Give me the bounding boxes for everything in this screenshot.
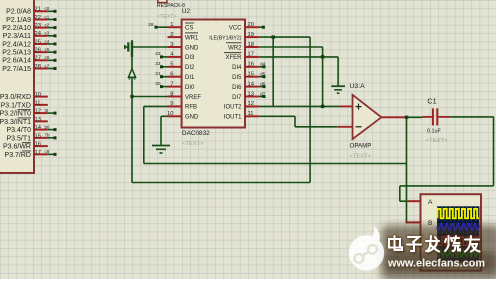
svg-text:14: 14 bbox=[248, 81, 255, 87]
svg-text:11: 11 bbox=[35, 100, 41, 106]
svg-text:c5: c5 bbox=[45, 47, 50, 52]
svg-text:IOUT2: IOUT2 bbox=[224, 105, 242, 111]
svg-text:DAC0832: DAC0832 bbox=[182, 130, 210, 137]
svg-text:10: 10 bbox=[35, 92, 41, 98]
svg-text:b6: b6 bbox=[45, 124, 50, 129]
svg-text:22: 22 bbox=[35, 15, 41, 21]
svg-text:1: 1 bbox=[170, 22, 173, 28]
svg-text:ILE(BY1/BY2): ILE(BY1/BY2) bbox=[209, 35, 242, 41]
svg-text:c8: c8 bbox=[45, 149, 50, 154]
svg-text:P2.7/A15: P2.7/A15 bbox=[2, 66, 31, 73]
svg-text:A: A bbox=[428, 199, 433, 206]
svg-text:28: 28 bbox=[148, 22, 154, 28]
svg-text:15: 15 bbox=[35, 133, 41, 139]
svg-text:12: 12 bbox=[248, 101, 254, 107]
svg-text:33: 33 bbox=[155, 51, 161, 57]
svg-text:c2: c2 bbox=[45, 22, 50, 27]
svg-text:DI4: DI4 bbox=[232, 65, 242, 71]
svg-text:12: 12 bbox=[35, 109, 41, 115]
svg-text:P3.2/INT0: P3.2/INT0 bbox=[0, 111, 31, 118]
svg-text:WR1: WR1 bbox=[185, 35, 199, 41]
svg-text:www.elecfans.com: www.elecfans.com bbox=[387, 258, 485, 270]
svg-text:0.1uF: 0.1uF bbox=[427, 129, 441, 135]
svg-text:DI2: DI2 bbox=[185, 65, 195, 71]
svg-text:GND: GND bbox=[185, 45, 199, 51]
svg-text:P3.6/WR: P3.6/WR bbox=[3, 144, 31, 151]
svg-text:25: 25 bbox=[35, 39, 41, 45]
svg-text:d7: d7 bbox=[260, 91, 266, 97]
svg-text:RFB: RFB bbox=[185, 105, 197, 111]
svg-text:t0: t0 bbox=[45, 108, 49, 113]
svg-text:17: 17 bbox=[248, 52, 254, 58]
svg-text:WR2: WR2 bbox=[228, 45, 242, 51]
svg-text:d4: d4 bbox=[260, 62, 266, 68]
svg-text:XFER: XFER bbox=[225, 55, 242, 61]
svg-text:2: 2 bbox=[170, 32, 173, 38]
svg-text:3: 3 bbox=[170, 42, 173, 48]
svg-text:OPAMP: OPAMP bbox=[350, 143, 372, 150]
svg-text:17: 17 bbox=[35, 150, 41, 156]
svg-text:9: 9 bbox=[170, 101, 173, 107]
svg-text:14: 14 bbox=[35, 125, 42, 131]
svg-text:P2.6/A14: P2.6/A14 bbox=[2, 58, 31, 65]
svg-text:6: 6 bbox=[170, 72, 173, 78]
svg-text:GND: GND bbox=[185, 115, 199, 121]
svg-text:c3: c3 bbox=[45, 31, 50, 36]
svg-text:IOUT1: IOUT1 bbox=[224, 115, 242, 121]
svg-text:<TEXT>: <TEXT> bbox=[350, 154, 372, 160]
svg-text:13: 13 bbox=[248, 91, 254, 97]
svg-text:13: 13 bbox=[35, 117, 41, 123]
svg-text:P3.7/RD: P3.7/RD bbox=[5, 152, 31, 159]
svg-text:30: 30 bbox=[155, 81, 161, 87]
svg-text:VREF: VREF bbox=[185, 95, 201, 101]
svg-text:d5: d5 bbox=[260, 72, 266, 78]
svg-text:c6: c6 bbox=[45, 55, 50, 60]
svg-text:<TEXT>: <TEXT> bbox=[157, 14, 176, 20]
svg-text:c7: c7 bbox=[45, 63, 50, 68]
svg-text:19: 19 bbox=[248, 32, 254, 38]
svg-text:28: 28 bbox=[35, 64, 41, 70]
svg-text:7b: 7b bbox=[45, 133, 50, 138]
svg-text:15: 15 bbox=[248, 72, 254, 78]
svg-text:P2.3/A11: P2.3/A11 bbox=[3, 33, 31, 40]
svg-text:DI1: DI1 bbox=[185, 75, 195, 81]
svg-text:31: 31 bbox=[155, 71, 161, 77]
svg-text:18: 18 bbox=[248, 42, 254, 48]
svg-text:DI0: DI0 bbox=[185, 85, 195, 91]
svg-text:P2.1/A9: P2.1/A9 bbox=[6, 17, 31, 24]
svg-text:DI3: DI3 bbox=[185, 55, 195, 61]
svg-text:21: 21 bbox=[35, 7, 41, 13]
svg-text:26: 26 bbox=[35, 48, 41, 54]
svg-text:24: 24 bbox=[35, 31, 42, 37]
svg-text:23: 23 bbox=[35, 23, 41, 29]
svg-text:10: 10 bbox=[167, 111, 173, 117]
svg-text:<TEXT>: <TEXT> bbox=[426, 138, 448, 144]
svg-text:27: 27 bbox=[35, 56, 41, 62]
svg-text:P2.0/A8: P2.0/A8 bbox=[6, 9, 31, 16]
svg-text:U2: U2 bbox=[182, 8, 190, 15]
svg-text:P2.4/A12: P2.4/A12 bbox=[2, 41, 31, 48]
svg-text:16: 16 bbox=[248, 62, 254, 68]
svg-text:20: 20 bbox=[248, 22, 254, 28]
svg-text:P3.1/TXD: P3.1/TXD bbox=[1, 102, 31, 109]
svg-text:U3:A: U3:A bbox=[350, 83, 366, 90]
svg-text:d6: d6 bbox=[260, 81, 266, 87]
svg-text:P2.5/A13: P2.5/A13 bbox=[2, 50, 31, 57]
svg-text:c1: c1 bbox=[45, 14, 50, 19]
svg-text:VCC: VCC bbox=[229, 26, 242, 32]
svg-text:32: 32 bbox=[155, 61, 161, 67]
svg-text:DI5: DI5 bbox=[232, 75, 242, 81]
svg-text:<TEXT>: <TEXT> bbox=[182, 141, 204, 147]
svg-text:c4: c4 bbox=[45, 39, 50, 44]
svg-text:P3.5/T1: P3.5/T1 bbox=[6, 135, 31, 142]
svg-text:5: 5 bbox=[170, 62, 173, 68]
svg-text:P3.4/T0: P3.4/T0 bbox=[6, 127, 31, 134]
svg-text:8: 8 bbox=[170, 91, 173, 97]
svg-text:P2.2/A10: P2.2/A10 bbox=[2, 25, 31, 32]
svg-text:c0: c0 bbox=[45, 6, 50, 11]
svg-text:7: 7 bbox=[170, 81, 173, 87]
svg-text:P3.0/RXD: P3.0/RXD bbox=[0, 94, 31, 101]
svg-text:P3.3/INT1: P3.3/INT1 bbox=[0, 119, 31, 126]
svg-text:CS: CS bbox=[185, 26, 193, 32]
svg-text:DI6: DI6 bbox=[232, 85, 242, 91]
svg-text:11: 11 bbox=[248, 111, 254, 117]
svg-text:RESPACK-8: RESPACK-8 bbox=[157, 3, 185, 9]
svg-text:16: 16 bbox=[35, 142, 41, 148]
svg-text:DI7: DI7 bbox=[232, 95, 242, 101]
svg-text:C1: C1 bbox=[427, 97, 436, 106]
